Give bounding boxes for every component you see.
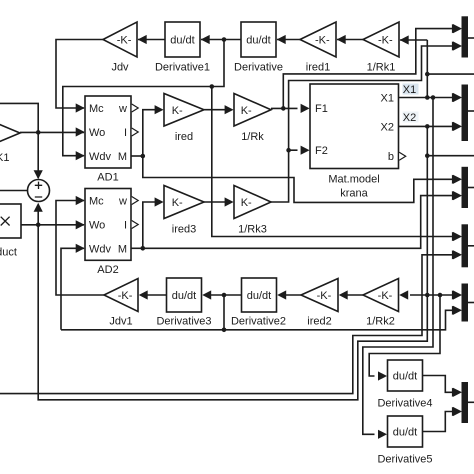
wire long line east to Mux5 bottom input bbox=[61, 310, 452, 330]
wire sum output to left edge bbox=[0, 190, 27, 192]
svg-text:du/dt: du/dt bbox=[170, 35, 194, 47]
svg-text:du/dt: du/dt bbox=[393, 427, 417, 439]
wire long line west end up to AD2 Wdv bbox=[61, 248, 84, 329]
gain Jdv bbox=[103, 22, 137, 57]
node AD1 M branch bbox=[141, 154, 146, 159]
node branch on product output bbox=[36, 223, 41, 228]
port I AD2 unconnected output bbox=[132, 221, 139, 229]
wire branch down x224 bbox=[223, 295, 225, 330]
port w AD2 unconnected output bbox=[132, 197, 139, 205]
svg-text:F1: F1 bbox=[315, 103, 328, 115]
svg-text:K1: K1 bbox=[0, 152, 9, 164]
wire F2 signal to Mux1 bottom input bbox=[289, 46, 452, 150]
gain 1/Rk2 bbox=[363, 279, 399, 312]
wire branch down into Sum + input bbox=[37, 132, 39, 178]
svg-text:-K-: -K- bbox=[378, 35, 393, 47]
wire exit to right edge y156 bbox=[427, 155, 474, 157]
gain K1 (clipped at left edge) bbox=[0, 118, 20, 148]
node X1 line x427 bbox=[425, 95, 430, 100]
node y156/x427 bbox=[425, 153, 430, 158]
wire X1 feedback into 1/Rk1 bbox=[400, 39, 427, 41]
derivative block Derivative bbox=[241, 22, 276, 57]
wire Derivative2 to Derivative3 bbox=[211, 294, 242, 296]
label X1 bbox=[403, 84, 419, 95]
svg-text:Jdv: Jdv bbox=[111, 62, 129, 74]
svg-text:b: b bbox=[388, 151, 394, 163]
wire exit to right edge y74 bbox=[427, 73, 474, 75]
svg-text:-K-: -K- bbox=[117, 35, 132, 47]
wire X2 branch into 1/Rk2 bbox=[410, 294, 427, 296]
svg-text:-K-: -K- bbox=[378, 290, 393, 302]
svg-text:1/Rk: 1/Rk bbox=[241, 131, 264, 143]
wire staircase branch to Derivative4 input bbox=[369, 295, 440, 376]
svg-text:M: M bbox=[118, 244, 127, 256]
svg-text:Derivative: Derivative bbox=[234, 62, 283, 74]
wire ired2 to Derivative2 bbox=[282, 294, 301, 296]
gain 1/Rk1 bbox=[363, 22, 399, 57]
product block Product (clipped) bbox=[0, 204, 21, 238]
wire to Mux5 top input bbox=[427, 294, 452, 296]
gain Jdv1 bbox=[104, 279, 138, 312]
svg-text:F2: F2 bbox=[315, 145, 328, 157]
wire ired to 1/Rk bbox=[204, 109, 226, 111]
wire branch down x212 across to Mux4 top input bbox=[212, 87, 452, 237]
wire M2 up into ired3 bbox=[143, 202, 156, 248]
svg-text:Wdv: Wdv bbox=[89, 244, 112, 256]
svg-text:Derivative4: Derivative4 bbox=[377, 398, 432, 410]
svg-text:-K-: -K- bbox=[317, 290, 332, 302]
port w unconnected output bbox=[132, 104, 139, 112]
svg-text:Derivative3: Derivative3 bbox=[156, 316, 211, 328]
svg-text:ired: ired bbox=[175, 131, 193, 143]
node on long y330 line bbox=[222, 328, 227, 333]
gain 1/Rk bbox=[234, 94, 271, 127]
wire left-edge line up staircase to Mux4 bottom input bbox=[0, 255, 452, 394]
svg-text:Product: Product bbox=[0, 247, 17, 259]
svg-text:X1: X1 bbox=[403, 84, 416, 96]
wire K1 output to AD1 Wo bbox=[20, 131, 84, 133]
svg-text:K-: K- bbox=[241, 197, 252, 209]
wire Derivative3 to Jdv1 bbox=[147, 294, 167, 296]
mux Mux2 bbox=[462, 85, 469, 142]
node mux5-line/x440 bbox=[438, 293, 443, 298]
svg-text:-K-: -K- bbox=[118, 290, 133, 302]
wire AD2 M output bbox=[131, 247, 143, 249]
derivative block Derivative4 bbox=[388, 360, 423, 391]
wire branch up into Sum - input bbox=[37, 211, 39, 225]
svg-text:Wdv: Wdv bbox=[89, 151, 112, 163]
wire X2 to Mux2 bottom input bbox=[399, 125, 453, 127]
svg-text:AD2: AD2 bbox=[97, 264, 118, 276]
node X2/1Rk2 junction bbox=[425, 293, 430, 298]
svg-text:Mc: Mc bbox=[89, 103, 104, 115]
mux Mux6 bbox=[462, 382, 469, 423]
svg-text:X2: X2 bbox=[403, 112, 416, 124]
wire AD1 M output bbox=[131, 155, 143, 157]
wire ired1 to Derivative bbox=[277, 39, 300, 41]
wire X2 riser down staircase to product output node bbox=[38, 126, 427, 399]
node X1 line x433 bbox=[431, 95, 436, 100]
gain ired3 bbox=[164, 186, 204, 219]
svg-text:w: w bbox=[118, 196, 127, 208]
svg-text:ired2: ired2 bbox=[307, 316, 331, 328]
svg-text:K-: K- bbox=[172, 105, 183, 117]
node AD2 M branch bbox=[141, 246, 146, 251]
svg-text:Wo: Wo bbox=[89, 220, 105, 232]
svg-text:ired3: ired3 bbox=[172, 224, 196, 236]
subsystem AD2 bbox=[85, 189, 131, 261]
wire M up into ired bbox=[143, 110, 156, 156]
wire F1 signal up to Mux1 top input bbox=[283, 29, 452, 109]
svg-text:du/dt: du/dt bbox=[172, 290, 196, 302]
wire Jdv1 output to AD2 Mc bbox=[56, 201, 104, 296]
wire w-derivative branch to AD1 Wdv bbox=[63, 40, 224, 156]
wire 1/Rk1 to ired1 bbox=[337, 39, 363, 41]
node F2 branch bbox=[286, 148, 291, 153]
svg-text:Derivative1: Derivative1 bbox=[155, 62, 210, 74]
wire x427 riser from 1/Rk1 feed down to X1 line bbox=[426, 40, 428, 98]
svg-text:du/dt: du/dt bbox=[393, 371, 417, 383]
svg-text:1/Rk1: 1/Rk1 bbox=[367, 62, 396, 74]
svg-text:I: I bbox=[124, 127, 127, 139]
wire ired3 to 1/Rk3 bbox=[204, 201, 226, 203]
node branch on Derivative2-Derivative3 wire bbox=[222, 293, 227, 298]
svg-text:AD1: AD1 bbox=[97, 172, 118, 184]
subsystem AD1 bbox=[85, 96, 131, 168]
subsystem Mat.model krana bbox=[310, 84, 399, 169]
wire 1/Rk2 to ired2 bbox=[346, 294, 363, 296]
svg-text:Mc: Mc bbox=[89, 196, 104, 208]
label X2 bbox=[403, 112, 419, 123]
svg-text:I: I bbox=[124, 220, 127, 232]
svg-text:1/Rk3: 1/Rk3 bbox=[238, 224, 267, 236]
svg-text:K-: K- bbox=[241, 105, 252, 117]
wire Jdv output to AD1 Mc bbox=[56, 40, 103, 109]
node F1 branch bbox=[281, 106, 286, 111]
svg-text:X1: X1 bbox=[381, 93, 394, 105]
gain ired bbox=[164, 94, 204, 127]
wire Product output to AD2 Wo bbox=[21, 224, 84, 226]
wire Derivative to Derivative1 bbox=[201, 39, 241, 41]
port b unconnected output bbox=[399, 152, 406, 160]
svg-text:X2: X2 bbox=[381, 122, 394, 134]
derivative block Derivative5 bbox=[388, 416, 423, 447]
wire 1/Rk3 output to F2 bbox=[271, 150, 298, 202]
node branch on Derivative-Derivative1 wire bbox=[222, 37, 227, 42]
svg-text:Derivative5: Derivative5 bbox=[377, 454, 432, 466]
svg-text:ired1: ired1 bbox=[306, 62, 330, 74]
svg-text:krana: krana bbox=[340, 188, 368, 200]
gain ired2 bbox=[301, 279, 338, 312]
wire X1 to Mux2 top input bbox=[399, 97, 453, 99]
node on y86 line bbox=[210, 84, 215, 89]
wire 1/Rk output to F1 bbox=[271, 107, 298, 109]
gain ired1 bbox=[300, 22, 336, 57]
wire Derivative1 to Jdv bbox=[138, 39, 165, 41]
sum block Sum1 bbox=[28, 180, 50, 202]
wire X1 riser down staircase to Derivative5 input bbox=[363, 98, 433, 435]
mux Mux3 bbox=[462, 167, 469, 208]
svg-text:K-: K- bbox=[172, 197, 183, 209]
wire AD2 M across to Mux3 bottom input bbox=[143, 196, 452, 249]
derivative block Derivative1 bbox=[165, 22, 200, 57]
port I unconnected output bbox=[132, 128, 139, 136]
svg-text:M: M bbox=[118, 151, 127, 163]
derivative block Derivative2 bbox=[242, 278, 277, 312]
derivative block Derivative3 bbox=[167, 278, 202, 312]
svg-text:du/dt: du/dt bbox=[247, 290, 271, 302]
wire Derivative5 to Mux6 bottom input bbox=[423, 412, 453, 432]
svg-text:Derivative2: Derivative2 bbox=[231, 316, 286, 328]
mux Mux1 bbox=[462, 16, 469, 57]
wire Derivative4 to Mux6 top input bbox=[423, 376, 453, 393]
node branch to sum bbox=[36, 130, 41, 135]
svg-text:w: w bbox=[118, 103, 127, 115]
mux Mux5 bbox=[462, 284, 469, 322]
wire AD1 M down and across to Mux3 top input bbox=[143, 156, 452, 202]
svg-text:Mat.model: Mat.model bbox=[328, 174, 379, 186]
wire from left edge down to Wo node bbox=[0, 103, 38, 132]
svg-text:-K-: -K- bbox=[315, 35, 330, 47]
node y74/x427 bbox=[425, 72, 430, 77]
svg-text:Wo: Wo bbox=[89, 127, 105, 139]
mux Mux4 bbox=[462, 224, 469, 267]
svg-text:Jdv1: Jdv1 bbox=[109, 316, 132, 328]
svg-text:du/dt: du/dt bbox=[246, 35, 270, 47]
node X2 branch bbox=[425, 124, 430, 129]
svg-text:1/Rk2: 1/Rk2 bbox=[366, 316, 395, 328]
gain 1/Rk3 bbox=[234, 186, 271, 219]
